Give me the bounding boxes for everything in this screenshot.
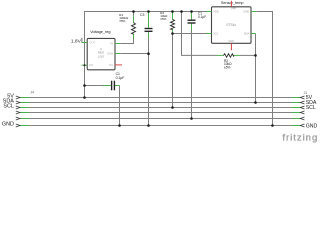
svg-text:0.1µF: 0.1µF [116,76,125,80]
svg-text:GND: GND [2,121,14,127]
resistor R2 zigzag [224,54,234,58]
svg-text:VPP: VPP [231,6,236,10]
svg-text:IN: IN [110,42,113,46]
svg-text:NC: NC [109,63,113,67]
svg-text:SDA: SDA [244,32,250,36]
capacitor C3 plates [145,28,153,29]
junction node R2 / SDA vertical [254,54,257,57]
svg-text:LDO: LDO [98,54,105,58]
junction node 5V bus tap [83,96,86,99]
sensor pin GND (right top, green) [251,11,256,13]
bus line 4 [20,112,300,114]
svg-text:0.1µF: 0.1µF [198,15,206,19]
sensor pin top (red unconnected) [230,1,232,7]
resistor R1 zigzag [132,23,136,35]
wire 1.8V net: OUT pin up and along top to sensor VDD [85,12,207,43]
temperature sensor box [212,7,252,44]
svg-text:VDD: VDD [213,10,219,14]
capacitor C3 leads (green) [148,12,150,28]
wire SCL net horizontal to sensor [173,33,207,35]
svg-text:GND: GND [107,52,113,56]
wire 1.8V top to R2 left [182,12,217,56]
capacitor C1 leads (green) [103,85,111,87]
junction node reg GND / C3 [147,52,150,55]
sensor pin bottom (red unconnected) [230,43,232,50]
svg-text:±5%: ±5% [224,65,231,69]
svg-text:EN: EN [89,63,93,67]
resistor R4 leads (green) [172,12,174,20]
bus line 5 [20,118,300,120]
svg-text:C3: C3 [140,13,144,17]
regulator pin GND (right mid, green) [115,53,120,55]
junction node C3 top [147,10,150,13]
svg-text:1.8V: 1.8V [71,38,82,44]
svg-text:GND: GND [228,39,234,43]
wire sensor GND pin right and down to GND bus [256,12,272,126]
connector J1 pin arrows (right) [300,96,304,127]
sensor pin SCL (left bottom, green) [206,33,212,35]
svg-text:OUT: OUT [89,41,95,45]
svg-text:SCL: SCL [306,105,316,111]
svg-text:±5%: ±5% [160,17,166,21]
resistor R2 leads (green) [217,54,224,56]
svg-text:fritzing: fritzing [282,133,318,144]
regulator pin EN (left bottom, green) [82,64,88,66]
resistor R1 leads (green) [133,15,135,23]
svg-text:GND: GND [306,123,318,129]
svg-text:SCL: SCL [3,103,14,109]
junction node cap C1 tap [83,84,86,87]
junction node SCL bus tap [171,106,174,109]
junction node OUT/EN tap [84,64,86,66]
capacitor C2 plates [188,20,196,21]
junction node R4 bottom / SCL wire [171,32,174,35]
wire C2 bottom down to bus line 5 [191,30,193,119]
sensor pin SDA (right bottom, green) [251,33,256,35]
junction node C2 top [190,10,193,13]
junction node C3 GND bus [147,124,150,127]
junction node R1 top [132,10,135,13]
wire C3 down to GND bus [148,38,150,126]
wire regulator IN to R1 bottom [120,38,133,43]
green bus ends right [292,98,300,126]
junction node C2 bus line5 [190,117,193,120]
junction node GND bus tap right [271,124,274,127]
bus line 5V [20,97,300,99]
green bus ends left [20,98,29,126]
svg-text:GND: GND [243,10,249,14]
junction node R2 feed top [180,10,183,13]
wire cap C1 right down to GND bus [119,86,121,126]
sensor pin VDD (left top, green) [206,11,212,13]
wire R1 top feed [133,12,135,16]
wire cap C1 left lead feed [85,85,104,87]
resistor R4 zigzag [171,19,175,29]
svg-text:SCL: SCL [213,32,219,36]
voltage regulator box [87,38,115,69]
wire sensor SDA pin down to SDA bus [255,34,257,103]
capacitor C2 leads (green) [191,12,193,20]
svg-text:Voltage_reg: Voltage_reg [90,30,110,34]
wire regulator GND to C3 vertical [120,53,148,55]
wire R2 right to sensor SDA vertical [240,54,256,56]
svg-text:STS4x: STS4x [226,23,236,27]
capacitor C1 plates [111,81,112,91]
connector J4 pin arrows (left) [16,96,20,127]
junction node SDA bus tap [254,101,257,104]
svg-text:Sensor_temp: Sensor_temp [221,1,244,5]
junction node R4 top [171,10,174,13]
bus line SDA [20,102,300,104]
wire R4 bottom down to SCL bus [172,34,174,108]
svg-text:±5%: ±5% [119,19,125,23]
bus line SCL [20,107,300,109]
wire OUT pin down to bypass cap junction and 5V bus [84,43,86,98]
regulator pin IN (right top, green) [115,43,120,45]
svg-text:J4: J4 [30,90,34,94]
regulator pin OUT (left top, green) [82,42,88,44]
svg-text:J1: J1 [304,91,308,95]
regulator pin NC (right bottom, red unconnected) [115,64,122,66]
junction node C1 to GND bus [118,124,121,127]
bus line GND [20,125,300,127]
